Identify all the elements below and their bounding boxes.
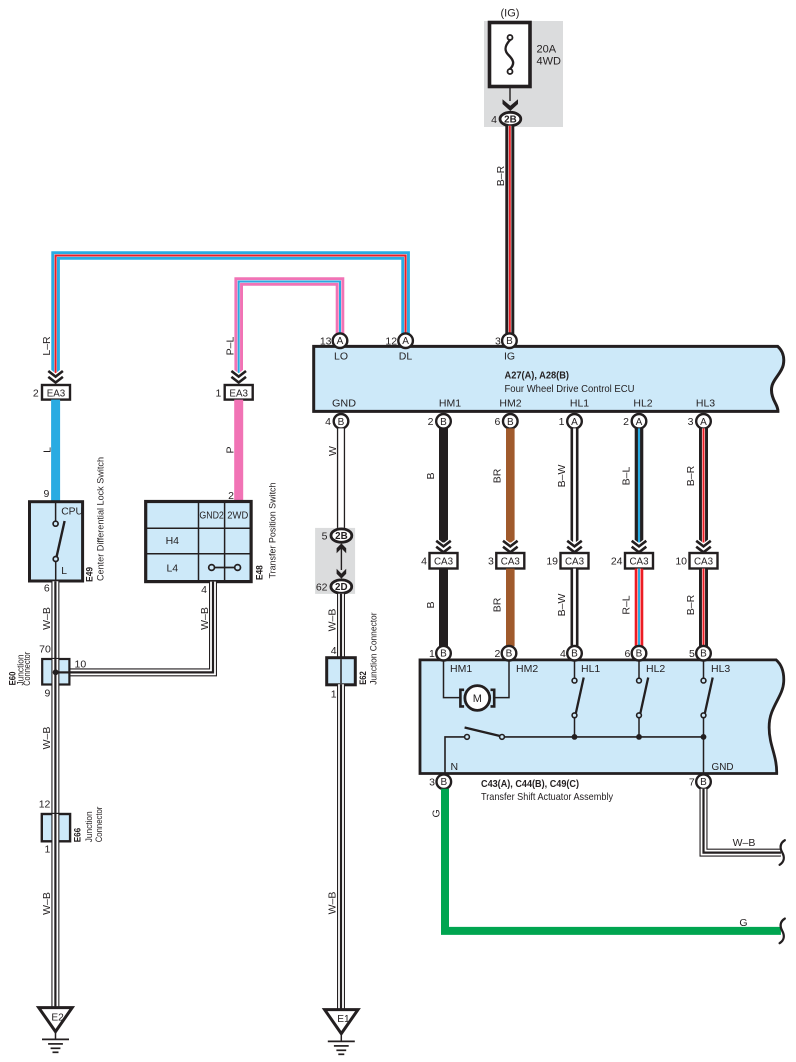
break symbol W-B xyxy=(780,840,785,865)
actuator pin 4 B HL1 xyxy=(560,646,582,661)
op ECU box A27 A28 Four Wheel Drive Control ECU xyxy=(314,346,784,411)
svg-text:Junction Connector: Junction Connector xyxy=(368,613,379,685)
connector 5 2B xyxy=(322,529,352,543)
svg-text:2B: 2B xyxy=(504,115,517,126)
actuator pin 6 B HL2 xyxy=(624,646,646,661)
E62 pin 4 xyxy=(331,645,337,657)
svg-text:LO: LO xyxy=(334,351,348,363)
label GND actuator xyxy=(712,761,734,773)
wire B–R HL3 lower xyxy=(699,569,708,647)
E62 pin 1 xyxy=(331,689,337,701)
svg-text:E1: E1 xyxy=(337,1014,350,1025)
wire BR HM2 lower xyxy=(506,569,515,647)
arrow into EA3 2 xyxy=(48,371,63,383)
label BR lower HM2 xyxy=(492,597,504,612)
svg-text:C43(A), C44(B), C49(C): C43(A), C44(B), C49(C) xyxy=(481,778,579,790)
connector 4 2B xyxy=(491,112,521,126)
svg-text:Transfer Shift Actuator Assemb: Transfer Shift Actuator Assembly xyxy=(481,791,614,803)
label E62 Junction Connector xyxy=(358,613,379,685)
wire L-R EA3 to DL xyxy=(56,256,406,380)
actuator pin 1 B HM1 xyxy=(429,646,451,661)
wire B–R HL3 upper xyxy=(699,428,708,542)
E49 label L xyxy=(61,566,67,577)
actuator label HM2 xyxy=(516,663,538,675)
connector 24 CA3 HL2 xyxy=(611,553,653,569)
wire BR HM2 upper xyxy=(506,428,515,542)
svg-text:4: 4 xyxy=(325,416,331,428)
arrow into CA3 HL1 xyxy=(567,541,582,553)
actuator pin 5 B HL3 xyxy=(689,646,711,661)
label G horizontal xyxy=(739,917,747,929)
svg-text:M: M xyxy=(473,693,482,705)
svg-text:B: B xyxy=(507,417,514,428)
svg-text:CPU: CPU xyxy=(61,506,83,517)
wire W-B 2D to E62 xyxy=(337,594,345,659)
svg-text:HL2: HL2 xyxy=(633,397,652,409)
svg-text:(IG): (IG) xyxy=(501,8,520,20)
wire B-R fuse to IG xyxy=(505,126,514,335)
svg-text:HM2: HM2 xyxy=(516,663,538,675)
svg-text:3: 3 xyxy=(495,336,501,348)
arrow into CA3 HL3 xyxy=(696,541,711,553)
ECU pin 3 B IG xyxy=(495,333,517,348)
junction connector E66 box xyxy=(42,814,70,841)
wire B–L HL2 upper xyxy=(635,428,644,542)
wire B HM1 upper xyxy=(439,428,448,542)
svg-text:4: 4 xyxy=(421,556,427,568)
svg-text:CA3: CA3 xyxy=(565,557,585,568)
svg-text:W–B: W–B xyxy=(41,892,53,915)
svg-text:B–R: B–R xyxy=(685,465,697,486)
svg-text:BR: BR xyxy=(492,468,504,483)
svg-text:10: 10 xyxy=(675,556,687,568)
wire L EA3 to E49 xyxy=(51,400,60,502)
actuator label HL1 xyxy=(581,663,600,675)
wire B–W HL1 upper xyxy=(571,428,579,542)
svg-text:W–B: W–B xyxy=(327,892,339,915)
svg-text:B–R: B–R xyxy=(685,594,697,615)
svg-text:62: 62 xyxy=(316,582,328,594)
svg-text:B–L: B–L xyxy=(620,467,632,486)
wire W-B E60 to E66 xyxy=(51,685,59,815)
actuator assembly box C43 C44 C49 xyxy=(420,660,784,774)
svg-text:7: 7 xyxy=(689,777,695,789)
label W-B left lower xyxy=(41,892,53,915)
connector 62 2D xyxy=(316,580,352,594)
actuator label HL3 xyxy=(711,663,730,675)
svg-text:L4: L4 xyxy=(166,563,178,575)
svg-text:A: A xyxy=(402,336,409,347)
svg-text:HL2: HL2 xyxy=(646,663,665,675)
connector EA3 2 xyxy=(33,385,70,400)
svg-text:4: 4 xyxy=(201,584,207,596)
label W-B horizontal xyxy=(733,837,756,849)
svg-text:W–B: W–B xyxy=(41,607,53,630)
wire HM1 to motor xyxy=(444,661,461,698)
wire through E66 to E2 xyxy=(51,814,59,1007)
svg-text:5: 5 xyxy=(689,648,695,660)
label B upper HM1 xyxy=(425,472,437,479)
svg-text:IG: IG xyxy=(504,351,515,363)
svg-text:CA3: CA3 xyxy=(629,557,649,568)
svg-text:B: B xyxy=(440,417,447,428)
E60 pin 9 xyxy=(44,688,50,700)
svg-text:GND: GND xyxy=(332,397,356,409)
ECU bottom pin labels xyxy=(332,397,715,409)
wire W GND to 2B xyxy=(337,428,345,529)
label L-R xyxy=(41,336,53,356)
E60 junction dot xyxy=(53,669,59,675)
label G vertical xyxy=(431,809,443,817)
label W-B left upper xyxy=(41,607,53,630)
switch E49 box xyxy=(30,502,83,581)
svg-text:GND: GND xyxy=(712,761,734,773)
svg-text:HL1: HL1 xyxy=(570,397,589,409)
svg-text:2: 2 xyxy=(428,416,434,428)
svg-text:2: 2 xyxy=(494,648,500,660)
label B–L upper HL2 xyxy=(620,467,632,486)
E60 pin 70 xyxy=(39,644,51,656)
wire B HM1 lower xyxy=(439,569,448,647)
svg-text:R–L: R–L xyxy=(620,595,632,614)
svg-text:B: B xyxy=(506,336,513,347)
svg-text:HM1: HM1 xyxy=(439,397,461,409)
label B–R lower HL3 xyxy=(685,594,697,615)
svg-text:W–B: W–B xyxy=(199,607,211,630)
svg-text:B–R: B–R xyxy=(495,165,507,186)
switch N xyxy=(445,728,504,775)
svg-text:EA3: EA3 xyxy=(229,388,248,399)
svg-text:3: 3 xyxy=(488,556,494,568)
arrow up to 2B xyxy=(337,543,347,553)
wire P-L EA3 to LO xyxy=(239,282,340,380)
fuse block background xyxy=(484,21,563,127)
actuator title xyxy=(481,778,614,803)
svg-text:A: A xyxy=(571,417,578,428)
E66 pin 1 xyxy=(44,844,50,856)
svg-text:2WD: 2WD xyxy=(227,510,248,522)
ECU title xyxy=(505,370,635,395)
svg-text:DL: DL xyxy=(399,351,413,363)
wire W-B E49 to E60 xyxy=(51,581,59,659)
ground E1 xyxy=(325,1010,358,1055)
svg-text:P–L: P–L xyxy=(224,337,236,356)
svg-text:GND2: GND2 xyxy=(199,510,224,522)
label E60 Junction Connector xyxy=(8,652,33,686)
svg-text:B–W: B–W xyxy=(556,594,568,617)
svg-text:E48: E48 xyxy=(255,565,266,580)
actuator pin 2 B HM2 xyxy=(494,646,516,661)
arrow into CA3 HM2 xyxy=(503,541,518,553)
label B lower HM1 xyxy=(425,601,437,608)
svg-text:1: 1 xyxy=(331,689,337,701)
junction connector E60 box xyxy=(42,659,69,685)
svg-text:B: B xyxy=(700,649,707,660)
wire HM2 to motor xyxy=(494,661,509,698)
ECU pin 12 A DL xyxy=(385,333,412,348)
arrow fuse to connector xyxy=(503,87,519,112)
fuse value label 20A 4WD xyxy=(537,44,562,68)
arrow into CA3 HM1 xyxy=(436,541,451,553)
svg-text:2D: 2D xyxy=(335,582,348,593)
E48 pin 4 xyxy=(201,584,207,596)
switch HL at 574.5 xyxy=(572,661,584,740)
svg-text:A27(A), A28(B): A27(A), A28(B) xyxy=(505,370,570,382)
svg-text:H4: H4 xyxy=(166,535,180,547)
ECU pin 4 B GND xyxy=(325,414,348,429)
svg-text:70: 70 xyxy=(39,644,51,656)
label B–W upper HL1 xyxy=(556,465,568,488)
svg-text:2: 2 xyxy=(623,416,629,428)
arrow shaft xyxy=(340,549,342,571)
svg-text:10: 10 xyxy=(75,658,87,670)
wire B–W HL1 lower xyxy=(571,569,579,647)
svg-text:12: 12 xyxy=(39,798,51,810)
E49 pin 9 xyxy=(44,488,50,500)
svg-text:B–W: B–W xyxy=(556,465,568,488)
svg-text:G: G xyxy=(739,917,747,929)
svg-text:6: 6 xyxy=(624,648,630,660)
ECU pin 1 A HL1 xyxy=(559,414,582,429)
E48 L4 contacts xyxy=(209,565,241,571)
label R–L lower HL2 xyxy=(620,595,632,614)
label (IG) xyxy=(501,8,520,20)
svg-text:E66: E66 xyxy=(72,828,83,843)
switch E48 box xyxy=(146,502,251,582)
label B-R xyxy=(495,165,507,186)
switch HL at 703.5 xyxy=(701,661,713,740)
ECU pin 6 B HM2 xyxy=(494,414,517,429)
E66 pin 12 xyxy=(39,798,51,810)
connector 3 CA3 HM2 xyxy=(488,553,524,569)
svg-text:B: B xyxy=(425,472,437,479)
wire R–L HL2 lower xyxy=(635,569,644,647)
ECU pin 2 A HL2 xyxy=(623,414,646,429)
svg-text:L: L xyxy=(61,566,67,577)
E49 pin 6 xyxy=(44,583,50,595)
ECU pin 2 B HM1 xyxy=(428,414,451,429)
svg-text:4WD: 4WD xyxy=(537,56,562,68)
svg-text:24: 24 xyxy=(611,556,623,568)
label W-B mid lower xyxy=(327,892,339,915)
connector 4 CA3 HM1 xyxy=(421,553,457,569)
actuator pin 3 B N xyxy=(429,774,451,789)
label W-B E48 branch xyxy=(199,607,211,630)
svg-text:Connector: Connector xyxy=(22,652,33,686)
label B–W lower HL1 xyxy=(556,594,568,617)
svg-text:L: L xyxy=(41,447,53,453)
svg-text:EA3: EA3 xyxy=(47,388,66,399)
svg-text:Four Wheel Drive Control ECU: Four Wheel Drive Control ECU xyxy=(505,383,635,395)
svg-text:2: 2 xyxy=(228,490,234,502)
shield connector background xyxy=(315,528,355,594)
actuator label HM1 xyxy=(450,663,472,675)
svg-text:5: 5 xyxy=(322,531,328,543)
label N xyxy=(451,761,459,773)
E48 pin 2 xyxy=(228,490,234,502)
svg-text:CA3: CA3 xyxy=(434,557,454,568)
svg-text:20A: 20A xyxy=(537,44,557,56)
label W xyxy=(327,446,339,456)
svg-text:4: 4 xyxy=(560,648,566,660)
svg-text:13: 13 xyxy=(320,336,332,348)
svg-text:HL1: HL1 xyxy=(581,663,600,675)
svg-text:Transfer Position Switch: Transfer Position Switch xyxy=(267,483,278,579)
svg-text:B: B xyxy=(506,649,513,660)
svg-text:BR: BR xyxy=(492,597,504,612)
svg-text:B: B xyxy=(440,649,447,660)
fuse 20A 4WD body xyxy=(490,23,531,87)
break symbol G xyxy=(780,919,785,944)
svg-text:A: A xyxy=(337,336,344,347)
svg-text:E2: E2 xyxy=(51,1012,64,1023)
svg-text:W: W xyxy=(327,446,339,456)
fuse element xyxy=(505,35,513,74)
svg-text:W–B: W–B xyxy=(733,837,756,849)
label P-L xyxy=(224,337,236,356)
E49 label CPU xyxy=(61,506,83,517)
svg-text:W–B: W–B xyxy=(327,609,339,632)
svg-text:CA3: CA3 xyxy=(501,557,521,568)
label BR upper HM2 xyxy=(492,468,504,483)
svg-text:2B: 2B xyxy=(335,531,348,542)
svg-text:B: B xyxy=(440,777,447,788)
svg-text:Center Differential Lock Switc: Center Differential Lock Switch xyxy=(95,457,106,581)
wire W-B from actuator pin 7 xyxy=(704,789,781,853)
label E49 Center Differential Lock Switch xyxy=(84,457,106,582)
svg-text:CA3: CA3 xyxy=(694,557,714,568)
svg-text:A: A xyxy=(700,417,707,428)
svg-text:6: 6 xyxy=(494,416,500,428)
svg-text:1: 1 xyxy=(429,648,435,660)
connector 10 CA3 HL3 xyxy=(675,553,717,569)
svg-text:19: 19 xyxy=(546,556,558,568)
svg-text:L–R: L–R xyxy=(41,336,53,356)
svg-text:HM1: HM1 xyxy=(450,663,472,675)
wire W-B E48 to E60 xyxy=(69,582,213,673)
svg-text:1: 1 xyxy=(44,844,50,856)
svg-text:A: A xyxy=(636,417,643,428)
arrow into CA3 HL2 xyxy=(632,541,647,553)
label W-B mid upper xyxy=(327,609,339,632)
svg-text:Connector: Connector xyxy=(94,807,105,843)
svg-text:HL3: HL3 xyxy=(696,397,715,409)
svg-text:E49: E49 xyxy=(84,567,95,582)
connector 19 CA3 HL1 xyxy=(546,553,588,569)
svg-text:B: B xyxy=(571,649,578,660)
svg-text:9: 9 xyxy=(44,488,50,500)
svg-text:HL3: HL3 xyxy=(711,663,730,675)
label B–R upper HL3 xyxy=(685,465,697,486)
svg-text:3: 3 xyxy=(688,416,694,428)
wire G from actuator xyxy=(445,789,781,931)
label W-B left mid xyxy=(41,727,53,750)
svg-text:W–B: W–B xyxy=(41,727,53,750)
junction connector E62 box xyxy=(327,658,356,685)
svg-text:6: 6 xyxy=(44,583,50,595)
actuator label HL2 xyxy=(646,663,665,675)
arrow down to 2D xyxy=(337,569,347,579)
wire through E60 xyxy=(55,659,69,685)
actuator pin 7 B GND xyxy=(689,774,711,789)
label E66 Junction Connector xyxy=(72,807,104,843)
svg-text:4: 4 xyxy=(331,645,337,657)
E60 pin 10 xyxy=(75,658,87,670)
wire GND inside actuator xyxy=(703,737,705,775)
svg-text:3: 3 xyxy=(429,777,435,789)
svg-text:B: B xyxy=(338,417,345,428)
bus line xyxy=(504,736,703,738)
label L xyxy=(41,447,53,453)
ECU pin 3 A HL3 xyxy=(688,414,711,429)
svg-text:B: B xyxy=(700,777,707,788)
svg-text:1: 1 xyxy=(216,388,222,400)
wire P EA3 to E48 xyxy=(234,400,243,502)
svg-text:2: 2 xyxy=(33,388,39,400)
svg-text:HM2: HM2 xyxy=(499,397,521,409)
ECU pin 13 A LO xyxy=(320,333,347,348)
connector EA3 1 xyxy=(216,385,253,400)
label P xyxy=(225,446,237,453)
label E48 Transfer Position Switch xyxy=(255,483,279,581)
svg-text:N: N xyxy=(451,761,459,773)
svg-text:P: P xyxy=(225,446,237,453)
ECU top pin labels xyxy=(334,351,515,363)
svg-text:4: 4 xyxy=(491,114,497,126)
ground E2 xyxy=(39,1008,72,1053)
arrow into EA3 1 xyxy=(231,371,246,383)
motor M xyxy=(460,686,494,711)
svg-text:B: B xyxy=(425,601,437,608)
svg-text:1: 1 xyxy=(559,416,565,428)
svg-text:B: B xyxy=(636,649,643,660)
wire W-B E62 to E1 xyxy=(337,684,345,1008)
svg-text:9: 9 xyxy=(44,688,50,700)
switch HL at 639.0 xyxy=(636,661,648,740)
svg-text:12: 12 xyxy=(385,336,397,348)
svg-text:G: G xyxy=(431,809,443,817)
E48 labels xyxy=(166,510,249,575)
E49 switch internals xyxy=(53,503,65,581)
